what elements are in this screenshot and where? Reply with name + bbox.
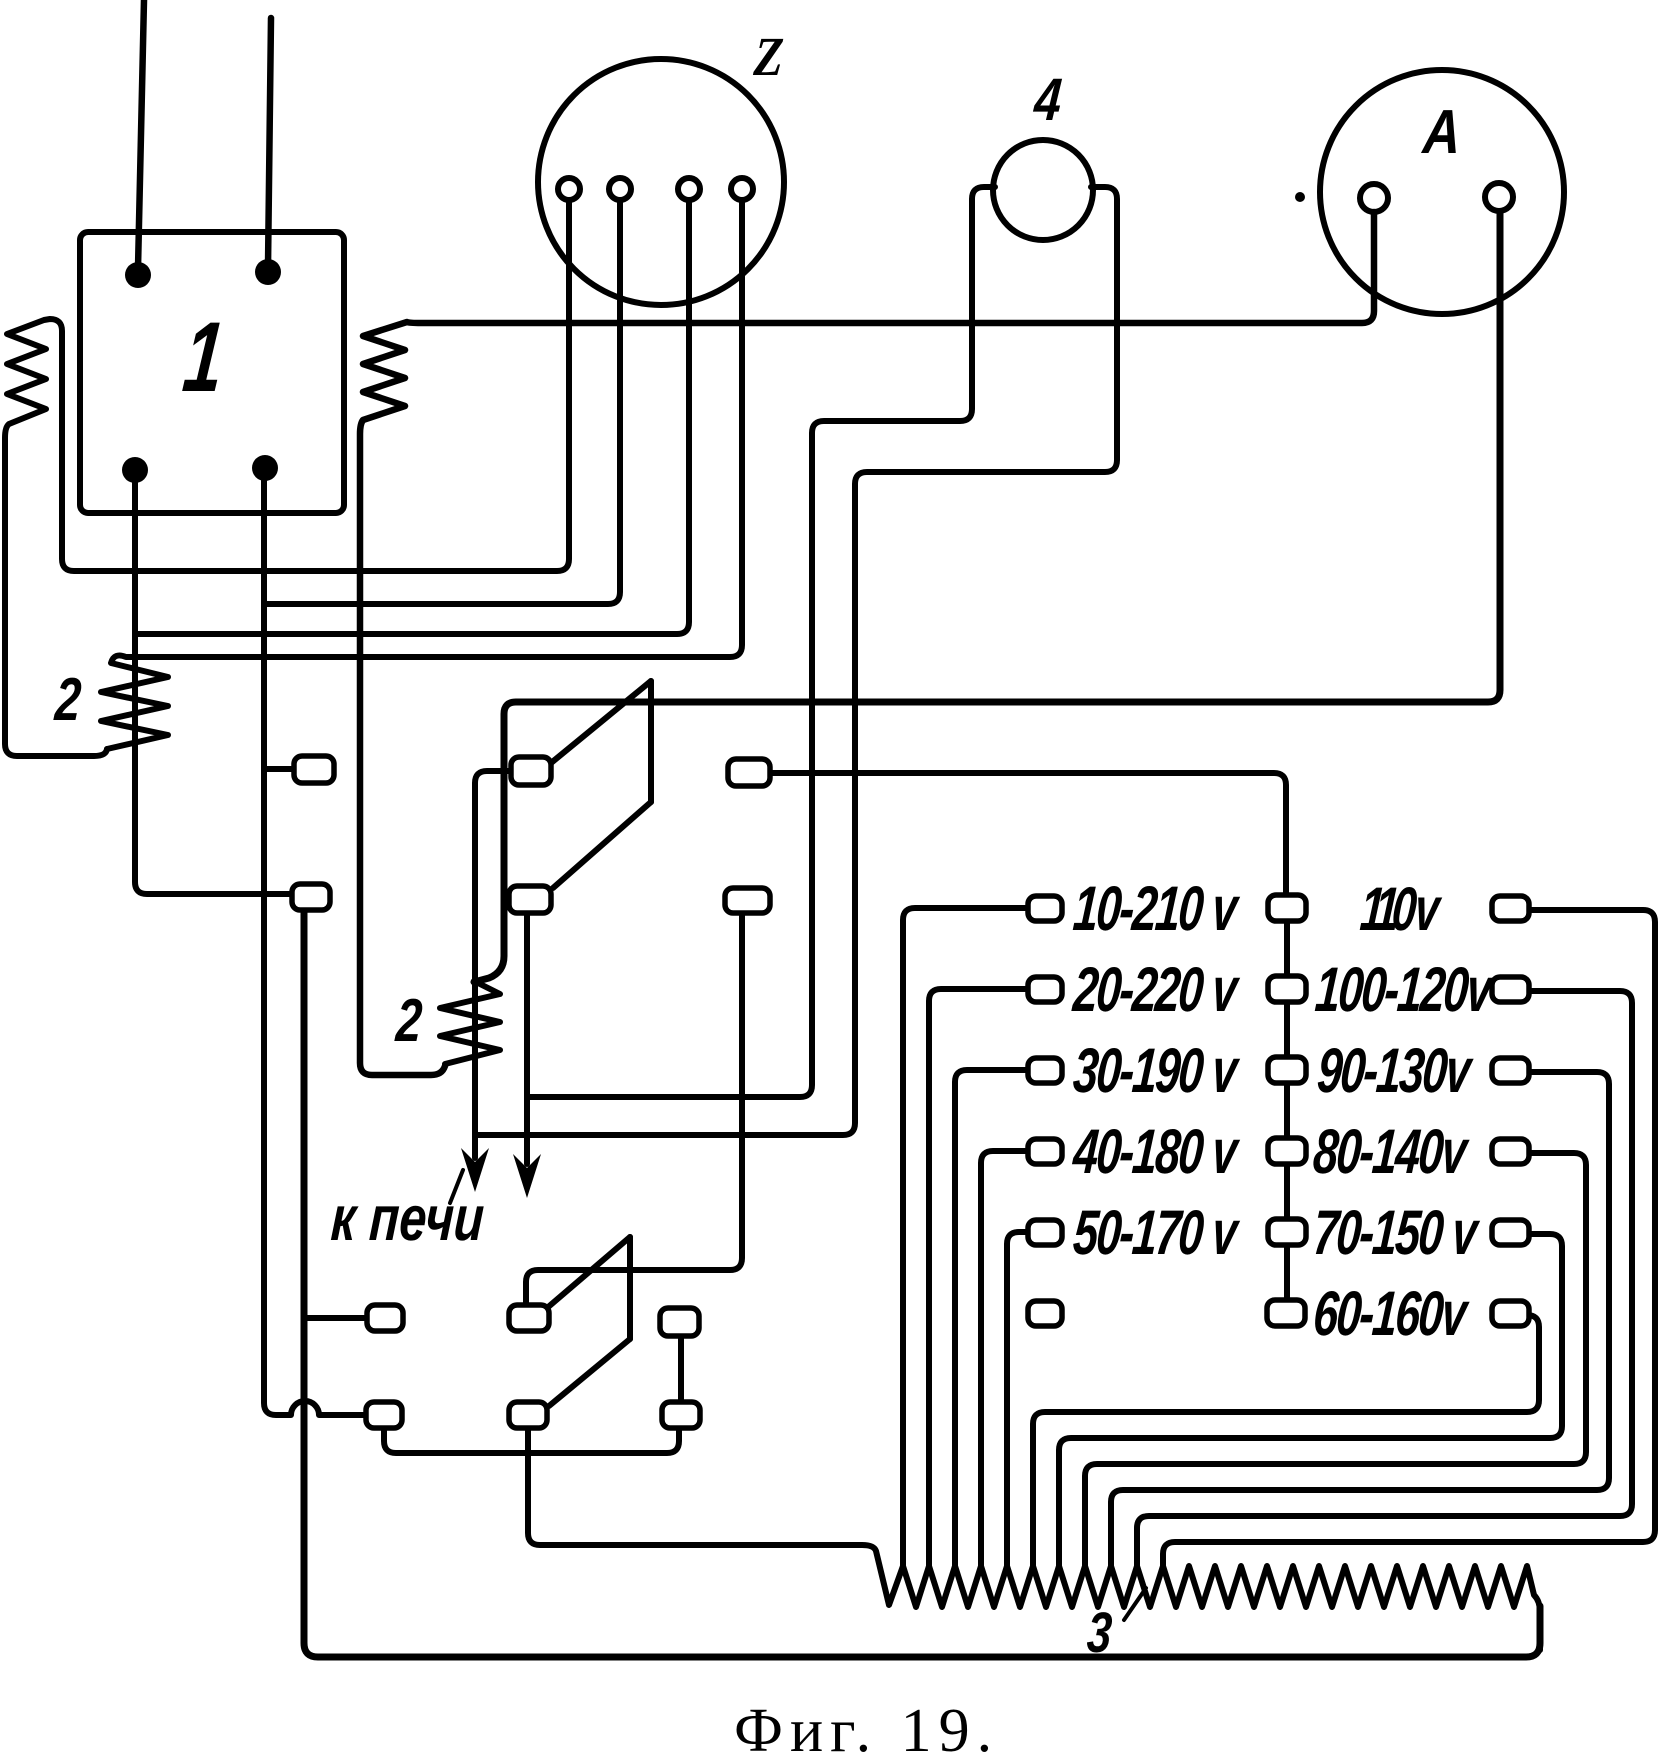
meter 4 circle	[993, 140, 1093, 240]
S2 terminal top-middle	[509, 1305, 549, 1331]
svg-text:10-210 v: 10-210 v	[1071, 873, 1242, 944]
wire S2 top-right to bottom-right terminal	[678, 1333, 684, 1404]
wire S2 bottom-left to bottom-right U link	[384, 1428, 679, 1453]
row5 terminal right	[1492, 1220, 1529, 1245]
S1 terminal bottom-middle	[509, 886, 551, 913]
resistor R2b zigzag	[440, 981, 500, 1064]
switch S1 blade diagonal down	[553, 802, 651, 888]
row4 terminal right	[1492, 1139, 1529, 1164]
row3 terminal middle	[1268, 1057, 1306, 1083]
svg-text:100-120v: 100-120v	[1313, 954, 1497, 1025]
row6 terminal left spare	[1028, 1301, 1062, 1326]
wire row1 right wrap to resistor R3 tap	[1163, 910, 1655, 1570]
wire middle terminal chain	[1284, 898, 1290, 1312]
svg-text:3: 3	[1085, 1601, 1114, 1665]
row4 terminal left	[1028, 1139, 1062, 1164]
wire input L	[138, 0, 144, 268]
S1 terminal bottom-left	[292, 884, 330, 910]
resistor R2a + wire bus4 to Z terminal 4	[101, 200, 742, 749]
svg-text:к печи: к печи	[329, 1184, 486, 1255]
S2 terminal bottom-middle	[509, 1402, 547, 1428]
svg-text:2: 2	[52, 666, 83, 734]
svg-text:4: 4	[1031, 66, 1064, 133]
switch S2 blade diagonal down	[549, 1339, 630, 1406]
row2 terminal middle	[1268, 976, 1306, 1002]
switch S2 blade diagonal up	[547, 1237, 630, 1308]
Z pin 4	[731, 178, 753, 200]
ammeter A circle	[1320, 70, 1564, 314]
wire S1 lower-left terminal down and bottom bus	[304, 910, 1540, 1657]
S1 terminal top-left	[294, 756, 334, 783]
row1 terminal left	[1028, 896, 1062, 921]
svg-text:2: 2	[393, 987, 424, 1055]
svg-text:Фиг. 19.: Фиг. 19.	[734, 1697, 999, 1754]
box1 terminal dot	[252, 455, 278, 481]
wire bus3 to Z terminal 3	[136, 200, 689, 634]
box1 terminal dot	[122, 457, 148, 483]
switch S1 blade vertical	[648, 681, 654, 802]
wire bus2 to Z terminal 2	[264, 200, 620, 604]
wire from box1 lower-left dot down to switch S1 lower-left terminal	[135, 470, 302, 894]
row3 terminal left	[1028, 1058, 1062, 1083]
switch S2 blade vertical	[627, 1237, 633, 1339]
svg-text:70-150 v: 70-150 v	[1311, 1197, 1482, 1268]
S1 terminal bottom-right	[725, 888, 770, 913]
furnace arrow 1 head	[461, 1148, 489, 1192]
Z pin 2	[609, 178, 631, 200]
S2 terminal top-left	[367, 1305, 403, 1331]
svg-text:30-190 v: 30-190 v	[1071, 1035, 1242, 1106]
row6 terminal right	[1492, 1301, 1529, 1326]
wire row2 right wrap to resistor R3 tap	[1137, 991, 1632, 1570]
svg-text:20-220 v: 20-220 v	[1070, 954, 1242, 1025]
row1 terminal middle	[1268, 895, 1306, 921]
wire row3 left bracket	[955, 1070, 1032, 1570]
svg-text:40-180 v: 40-180 v	[1070, 1116, 1242, 1187]
wire row1 left bracket	[903, 908, 1032, 1570]
wire S2 bottom-middle down + resistor R3 zigzag	[528, 1428, 1540, 1650]
row5 terminal middle	[1268, 1219, 1306, 1245]
row4 terminal middle	[1268, 1138, 1306, 1164]
svg-text:60-160v: 60-160v	[1311, 1278, 1471, 1349]
S2 terminal bottom-right	[662, 1402, 700, 1428]
svg-text:Z: Z	[751, 27, 785, 88]
S2 terminal bottom-left	[366, 1402, 402, 1428]
wire row5 right wrap to resistor R3 tap	[1059, 1234, 1562, 1570]
wire row2 left bracket	[929, 989, 1032, 1570]
wire row5 left bracket	[1007, 1232, 1032, 1570]
A pin 2	[1485, 183, 1513, 211]
winding circle Z	[538, 59, 784, 305]
row1 terminal right	[1492, 896, 1529, 921]
row2 terminal left	[1028, 977, 1062, 1002]
svg-text:90-130v: 90-130v	[1315, 1035, 1475, 1106]
box1 terminal dot	[255, 259, 281, 285]
svg-text:80-140v: 80-140v	[1311, 1116, 1471, 1187]
ink dot near A	[1295, 192, 1305, 202]
Z pin 3	[678, 178, 700, 200]
wire row4 left bracket	[981, 1151, 1032, 1570]
transformer box 1	[80, 232, 344, 513]
svg-text:A: A	[1419, 98, 1462, 167]
S2 terminal top-right	[660, 1308, 699, 1336]
wire S1 top-right terminal to middle terminal column	[770, 773, 1286, 898]
wire feed switch S2 top-left terminal	[304, 1315, 377, 1321]
wire furnace arrow 1 vertical	[475, 771, 513, 1158]
box1 terminal dot	[125, 262, 151, 288]
wire meter 4 left terminal to furnace line 2	[527, 187, 995, 1097]
switch S1 blade diagonal up	[551, 681, 651, 763]
row3 terminal right	[1492, 1058, 1529, 1083]
wire input R	[268, 18, 271, 266]
wire furnace arrow 2 vertical	[524, 913, 530, 1164]
furnace arrow 2 head	[513, 1154, 541, 1198]
wire meter 4 right terminal to furnace line 1	[475, 187, 1117, 1135]
wire row3 right wrap to resistor R3 tap	[1111, 1072, 1609, 1570]
S1 terminal top-right	[728, 759, 770, 786]
svg-text:50-170 v: 50-170 v	[1071, 1197, 1242, 1268]
row6 terminal middle	[1267, 1300, 1305, 1326]
row5 terminal left	[1028, 1220, 1062, 1245]
wire row4 right wrap to resistor R3 tap	[1085, 1153, 1586, 1570]
wire from box1 lower-right dot down to switch S2 lower-left terminal with hop	[264, 468, 377, 1415]
A pin 1	[1360, 184, 1388, 212]
Z pin 1	[558, 178, 580, 200]
wire bus1 + resistor R1a left zigzag chain	[5, 200, 569, 756]
wire feed switch S1 top-left terminal	[264, 766, 305, 772]
wire apex S1 to ammeter A right terminal	[474, 212, 1500, 982]
row2 terminal right	[1492, 977, 1529, 1002]
wire bus A + resistor R1b zigzag + wire down right of box	[360, 212, 1374, 1075]
label leader for resistor 3	[1124, 1588, 1146, 1620]
wire S1 bottom-right terminal down to S2 top-middle terminal	[526, 912, 742, 1308]
label leader for k pechi	[450, 1170, 463, 1203]
wire row6 right wrap to resistor R3 tap	[1033, 1315, 1539, 1570]
S1 terminal top-middle	[511, 757, 551, 785]
